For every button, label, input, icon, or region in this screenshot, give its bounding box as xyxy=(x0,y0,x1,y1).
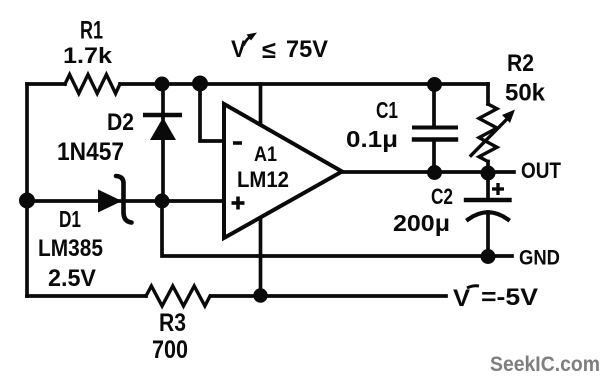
svg-text:R3: R3 xyxy=(159,309,186,337)
svg-text:2.5V: 2.5V xyxy=(48,265,96,292)
svg-text:50k: 50k xyxy=(505,80,546,107)
svg-text:D2: D2 xyxy=(107,109,134,136)
svg-text:C2: C2 xyxy=(431,184,453,209)
svg-text:700: 700 xyxy=(152,336,188,364)
svg-text:LM12: LM12 xyxy=(237,167,289,192)
svg-text:A1: A1 xyxy=(254,143,277,166)
svg-text:1N457: 1N457 xyxy=(57,138,124,166)
svg-text:V: V xyxy=(231,36,246,63)
svg-text:75V: 75V xyxy=(286,36,328,63)
svg-text:OUT: OUT xyxy=(521,158,561,183)
svg-text:C1: C1 xyxy=(376,97,398,123)
svg-text:V: V xyxy=(453,285,470,312)
svg-text:1.7k: 1.7k xyxy=(63,43,113,68)
svg-text:200μ: 200μ xyxy=(393,210,450,236)
svg-text:=-5V: =-5V xyxy=(481,284,538,311)
svg-text:D1: D1 xyxy=(59,206,81,232)
svg-text:R2: R2 xyxy=(507,50,534,77)
svg-text:0.1μ: 0.1μ xyxy=(346,126,398,152)
svg-text:SeekIC.com: SeekIC.com xyxy=(490,353,600,376)
svg-text:GND: GND xyxy=(519,247,560,270)
svg-text:≤: ≤ xyxy=(262,37,276,64)
svg-text:LM385: LM385 xyxy=(38,235,103,262)
svg-text:R1: R1 xyxy=(80,17,103,45)
